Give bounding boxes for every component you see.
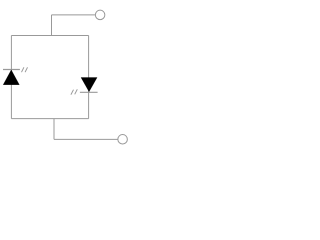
diode D2 triangle [81,78,97,92]
wire: box bottom horizontal [11,118,88,120]
diode D2 (right, pointing down) cathode bar [80,91,98,93]
diode D2 slash mark 2 [75,89,78,94]
wire: box top horizontal [11,35,88,37]
wire: top terminal stub vertical [51,15,53,36]
diode D1 slash mark 1 [22,67,24,72]
wire: bottom terminal lead horizontal [54,138,118,140]
wire: bottom terminal stub vertical [53,119,55,140]
wire: box left vertical [10,36,12,119]
diode D1 slash mark 2 [25,67,27,72]
terminal circle (top) [95,10,105,20]
diode D2 slash mark 1 [71,90,74,95]
diode D1 (left, pointing up) cathode bar [3,69,20,71]
terminal circle (bottom) [118,135,128,145]
wire: box right vertical [88,36,90,119]
wire: top terminal lead horizontal [52,14,96,16]
diode D1 triangle [3,70,19,85]
